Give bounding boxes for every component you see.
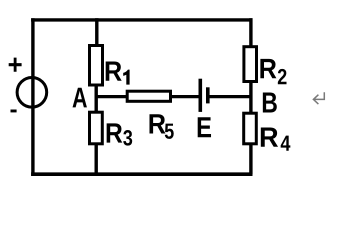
node label B	[263, 93, 277, 113]
wire node A vertical (R1 bottom to R3 top)	[94, 85, 97, 112]
resistor R1 (box)	[90, 46, 103, 86]
label E	[198, 117, 211, 137]
wire R5 to battery E	[171, 95, 199, 98]
label R4	[261, 128, 291, 151]
wire R2 bottom to R4 top (node B vertical)	[249, 82, 252, 114]
wire node A to R5	[96, 95, 127, 98]
paragraph return mark	[313, 92, 324, 104]
wire R1 top stub	[95, 18, 98, 45]
source plus sign	[9, 58, 22, 72]
wire battery E to node B	[209, 95, 251, 98]
wire top	[31, 18, 252, 21]
resistor R3 (box)	[90, 112, 103, 144]
node label A	[73, 88, 87, 108]
resistor R4 (box)	[244, 113, 257, 144]
label R5	[149, 114, 173, 139]
resistor R5 (box)	[127, 91, 170, 101]
label R1	[106, 62, 130, 85]
wire bottom	[31, 172, 252, 176]
resistor R2 (box)	[244, 47, 257, 82]
battery cell E short plate	[206, 87, 210, 103]
label R2	[260, 59, 286, 84]
source minus sign	[11, 110, 17, 113]
wire R4 bottom stub	[249, 144, 252, 174]
label R3	[107, 123, 133, 145]
wire right top segment (top wire to R2)	[249, 18, 252, 45]
battery cell E long plate	[199, 79, 203, 112]
wire left (through source)	[31, 18, 34, 176]
voltage source circle	[17, 78, 47, 108]
wire R3 bottom stub	[94, 144, 97, 174]
